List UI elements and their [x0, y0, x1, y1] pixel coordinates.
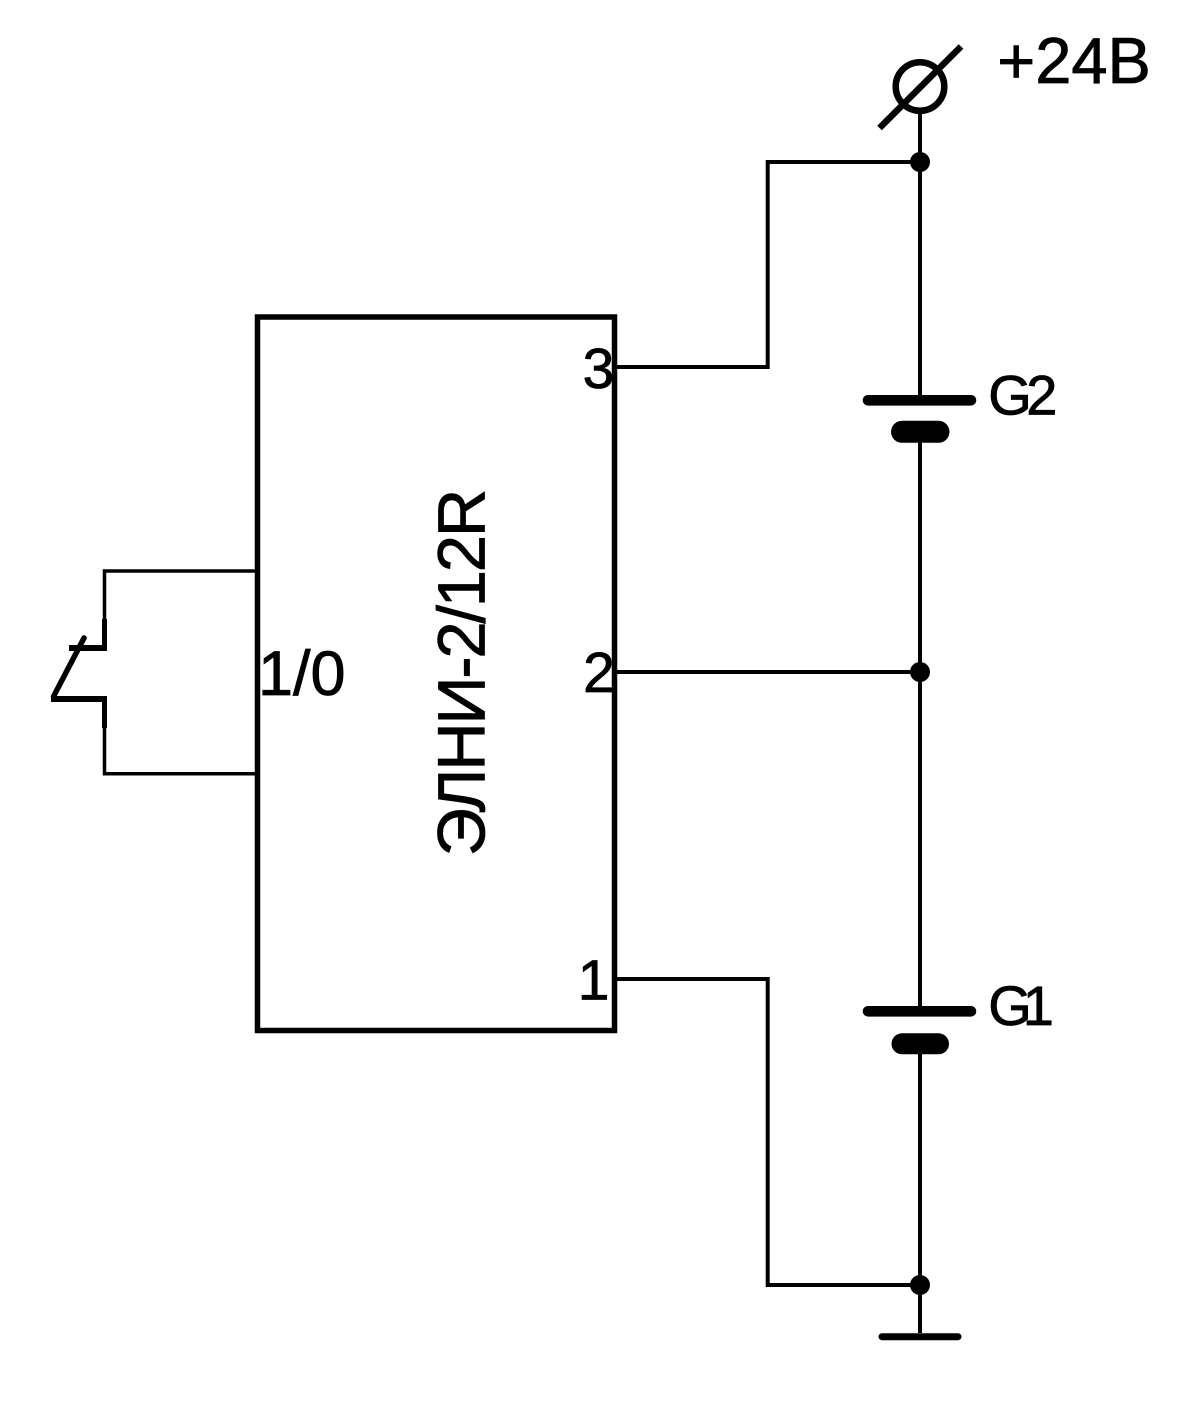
svg-text:1: 1 — [578, 949, 610, 1013]
wire: box to contact top — [105, 571, 259, 621]
svg-text:G2: G2 — [988, 363, 1057, 426]
wire: pin 2 to node B — [614, 670, 920, 674]
wire: node C to ground — [918, 1285, 922, 1333]
svg-text:+24В: +24В — [997, 24, 1151, 97]
contact SK top bar — [69, 645, 107, 651]
svg-text:1/0: 1/0 — [258, 639, 346, 709]
node A (junction dot, +24V rail) — [910, 152, 930, 172]
battery G1 positive plate — [868, 1006, 971, 1017]
contact top lead (thick) — [102, 619, 107, 650]
svg-text:2: 2 — [583, 641, 615, 705]
contact bottom lead (thick) — [102, 699, 107, 728]
contact SK bottom bar — [51, 696, 107, 702]
wire: G2 to G1 — [918, 442, 922, 1006]
terminal X1 (circle with slash) — [880, 47, 962, 129]
battery G2 positive plate — [868, 395, 971, 406]
battery G2 negative plate — [902, 421, 939, 443]
battery G1 negative plate — [902, 1033, 939, 1054]
wire: contact bottom to box — [105, 726, 259, 774]
module U1 box (ЭЛНИ-2/12R) — [258, 317, 615, 1031]
svg-text:ЭЛНИ-2/12R: ЭЛНИ-2/12R — [425, 489, 500, 857]
svg-text:3: 3 — [583, 337, 615, 401]
contact SK lever — [54, 638, 85, 697]
wire: terminal to node A — [918, 112, 922, 398]
node C (junction dot, bottom) — [910, 1275, 930, 1295]
ground — [882, 1333, 958, 1340]
wire: pin 3 to node A — [614, 162, 920, 367]
node B (junction dot, pin 2 tap) — [910, 662, 930, 682]
svg-text:G1: G1 — [988, 974, 1054, 1037]
wire: G1 to node C — [918, 1053, 922, 1285]
wire: pin 1 to node C — [614, 979, 920, 1285]
